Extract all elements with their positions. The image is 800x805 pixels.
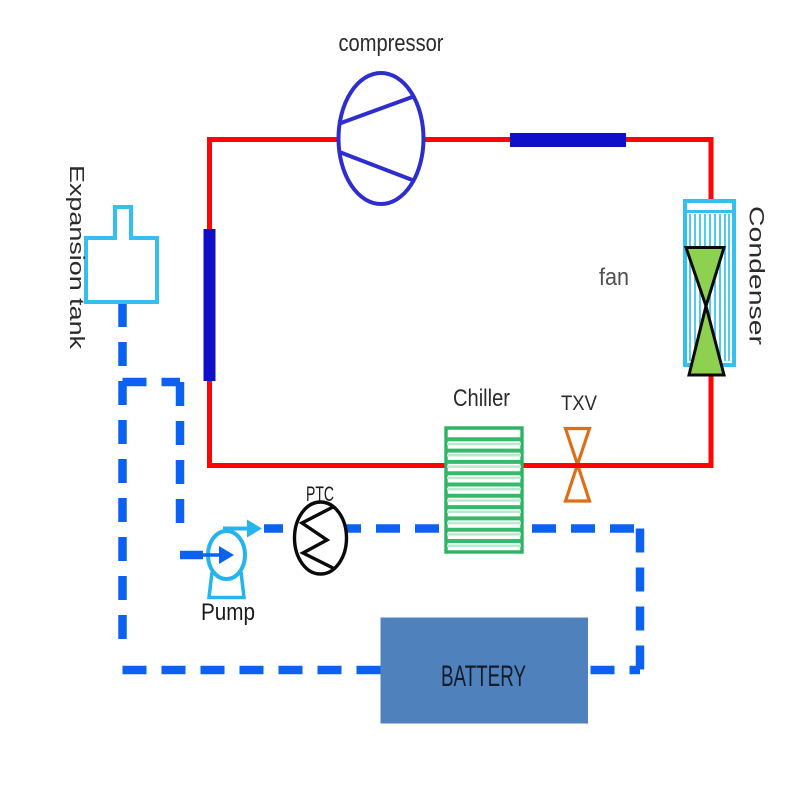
svg-text:Pump: Pump	[201, 599, 255, 626]
wire: coolant dashed branch vertical	[176, 382, 185, 536]
wire: coolant dashed right riser	[636, 529, 645, 671]
valve TXV	[566, 429, 590, 502]
svg-text:Chiller: Chiller	[453, 385, 510, 412]
pump outlet arrow	[223, 520, 262, 538]
svg-text:fan: fan	[599, 264, 629, 291]
expansion tank	[86, 207, 157, 302]
svg-text:BATTERY: BATTERY	[441, 660, 526, 693]
node: blue bar on top pipe	[510, 133, 626, 147]
node: blue bar on left pipe	[204, 229, 216, 381]
PTC heater body	[295, 502, 347, 574]
wire: coolant dashed pump-PTC-chiller run	[264, 524, 640, 533]
compressor body	[339, 73, 424, 204]
pump body	[208, 531, 245, 579]
svg-text:PTC: PTC	[306, 483, 334, 506]
wire: coolant dashed tank down-leg	[118, 303, 127, 650]
wire: coolant dashed bottom run	[123, 666, 641, 675]
svg-text:Condenser: Condenser	[745, 206, 768, 345]
chiller body	[446, 428, 522, 552]
wire: coolant dashed branch horizontal	[123, 378, 181, 387]
battery block	[381, 618, 589, 724]
wire: coolant dashed stub into pump	[180, 551, 203, 560]
svg-text:TXV: TXV	[561, 392, 597, 415]
wire: red refrigerant loop	[210, 140, 712, 466]
condenser body	[685, 201, 734, 365]
pump inlet arrow	[200, 546, 234, 564]
pump base	[209, 572, 244, 598]
svg-text:Expansion tank: Expansion tank	[65, 165, 87, 350]
svg-text:compressor: compressor	[339, 30, 444, 57]
fan blades on condenser	[686, 248, 724, 376]
